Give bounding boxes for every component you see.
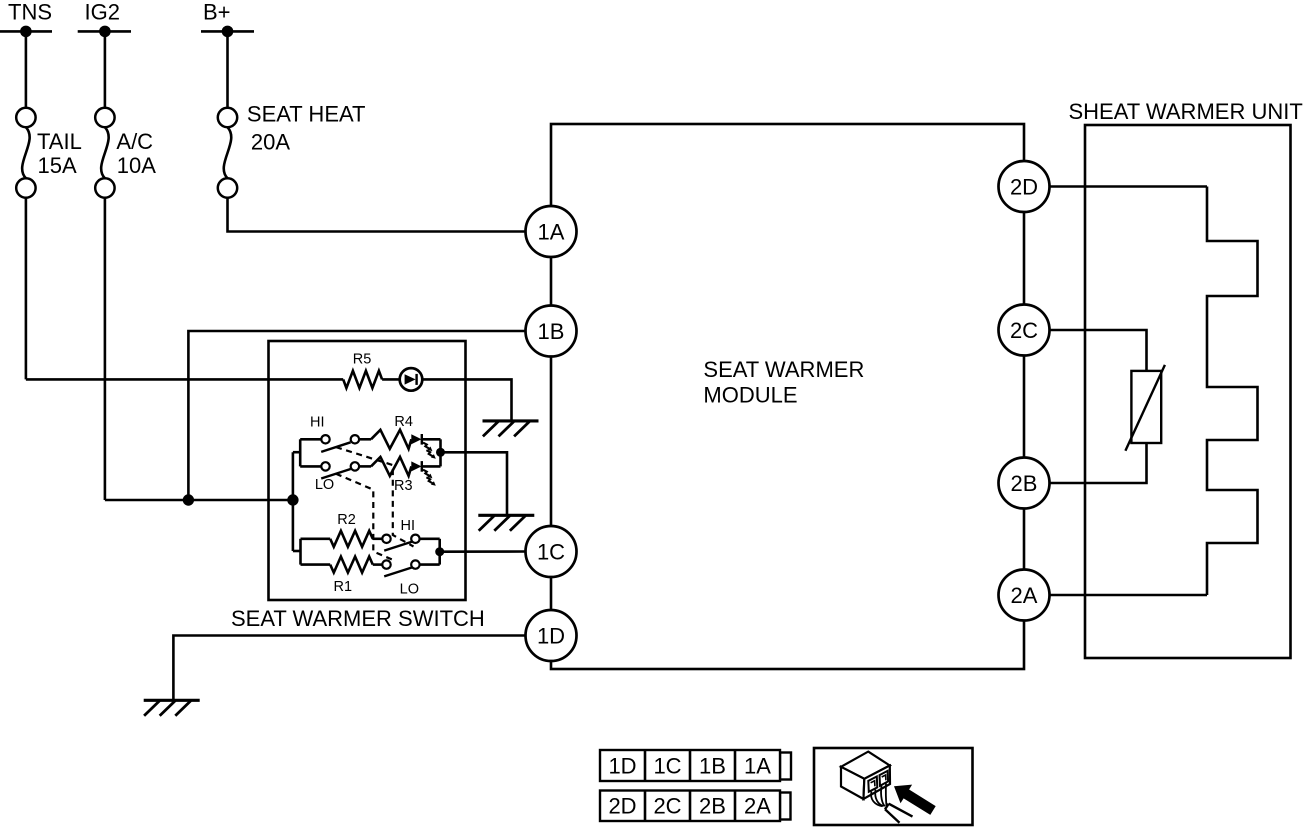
wire R4 to junction (422, 438, 441, 441)
resistor R1 (330, 557, 373, 573)
connector table row 1 tab (780, 753, 791, 780)
resistor R5 (343, 371, 382, 388)
wire HI switch to R4 (359, 438, 371, 441)
resistor R3 (371, 457, 411, 476)
svg-text:2D: 2D (608, 794, 636, 819)
wire HI/LO bracket (299, 439, 302, 466)
switch HI (heater) blade (384, 542, 412, 551)
svg-text:1B: 1B (699, 754, 726, 779)
svg-text:B+: B+ (203, 0, 231, 25)
svg-text:SEAT WARMER: SEAT WARMER (703, 357, 864, 382)
pin 2C (999, 305, 1050, 356)
power rail B+ (201, 30, 254, 33)
junction dot heater switch node (435, 547, 444, 556)
wire TNS to resistor R5 (26, 378, 343, 381)
LED emission arrows R4 (423, 443, 429, 449)
pin 1B (526, 306, 577, 357)
wire R1 to LO switch (373, 563, 383, 566)
wire R2/R1 junction vertical (438, 539, 441, 565)
svg-text:SHEAT WARMER UNIT: SHEAT WARMER UNIT (1069, 99, 1303, 124)
wire B+ rail to fuse SEAT HEAT (226, 31, 229, 108)
svg-text:2C: 2C (653, 794, 681, 819)
pin 2D (999, 161, 1050, 212)
install direction arrow (894, 785, 936, 815)
svg-text:R4: R4 (394, 414, 413, 430)
switch HI (lamp) blade (321, 442, 350, 452)
svg-text:15A: 15A (38, 153, 77, 178)
connector illustration frame (814, 748, 973, 825)
wire LO switch to R3 (359, 465, 371, 468)
wire R3 to junction (422, 465, 441, 468)
svg-text:2A: 2A (1011, 583, 1038, 608)
ground symbol main (144, 699, 200, 702)
pin 1D (526, 610, 577, 661)
svg-text:TNS: TNS (8, 0, 52, 25)
svg-text:2B: 2B (1011, 471, 1038, 496)
ground symbol right of switch (upper) (483, 419, 539, 422)
svg-text:1A: 1A (744, 754, 771, 779)
svg-text:1D: 1D (608, 754, 636, 779)
fuse TAIL 15A (16, 108, 35, 127)
power rail TNS (0, 30, 52, 33)
wire junction to ground (lower) (441, 452, 508, 515)
fuse A/C 10A (95, 108, 114, 127)
heater element (1207, 187, 1258, 596)
connector table row 2 (600, 791, 780, 822)
connector table row2 dividers (644, 791, 647, 822)
switch LO (heater) contact b (411, 560, 419, 568)
svg-text:SEAT HEAT: SEAT HEAT (247, 102, 366, 127)
connector wires (871, 792, 882, 807)
wire LED to ground (422, 379, 512, 421)
wire pin 2C to thermistor (1050, 330, 1147, 371)
wire bracket to HI switch (300, 438, 321, 441)
switch HI (heater) contact b (411, 535, 419, 543)
svg-text:SEAT WARMER SWITCH: SEAT WARMER SWITCH (231, 606, 485, 631)
switch HI (lamp) contact a (321, 435, 329, 443)
svg-text:TAIL: TAIL (37, 129, 82, 154)
wire HI switch to 1C junction (420, 537, 440, 540)
junction dot R4/R3 node (436, 448, 445, 457)
connector wire fork (889, 804, 913, 817)
junction dot IG2/1B node (183, 494, 194, 505)
svg-text:LO: LO (400, 582, 419, 598)
wire R5 to LED (382, 378, 400, 381)
svg-text:1C: 1C (653, 754, 681, 779)
pin 1C (526, 526, 577, 577)
svg-text:1A: 1A (538, 220, 565, 245)
resistor R4 (371, 430, 411, 449)
sheat warmer unit box (1085, 125, 1291, 658)
svg-text:2A: 2A (744, 794, 771, 819)
svg-text:IG2: IG2 (85, 0, 120, 25)
LED diode of R3 (411, 461, 421, 471)
svg-text:1B: 1B (538, 319, 565, 344)
svg-text:2D: 2D (1010, 175, 1038, 200)
svg-text:1C: 1C (537, 540, 565, 565)
LED diode of R4 (411, 434, 421, 444)
thermistor diagonal (1125, 365, 1165, 451)
wire A/C feed horizontal to switch (105, 499, 293, 502)
wire SEAT HEAT fuse to pin 1A (228, 197, 526, 231)
wire R4/R3 junction vertical (439, 439, 442, 466)
seat warmer switch box (269, 341, 466, 600)
switch LO (heater) contact a (382, 560, 390, 568)
seat warmer module box (551, 124, 1024, 669)
wire TAIL fuse down to R5 branch (25, 197, 28, 379)
wire A/C fuse down to switch feed (104, 197, 107, 500)
ground symbol right of switch (lower) (478, 514, 534, 517)
wire pin 2A to heater (1050, 594, 1208, 597)
power rail IG2 (78, 30, 131, 33)
connector pin hole 2 (880, 771, 889, 786)
wire switch feed vertical (292, 452, 295, 551)
svg-text:R1: R1 (334, 579, 353, 595)
LED indicator lamp (400, 368, 423, 391)
connector housing top face (841, 752, 890, 779)
pin 2B (999, 458, 1050, 509)
wire LO switch to 1C junction (420, 563, 440, 566)
wire TNS rail to fuse TAIL (25, 31, 28, 108)
wire stub to R2/R1 bracket (293, 550, 301, 553)
connector housing left face (841, 767, 864, 799)
switch LO (heater) blade (384, 567, 412, 576)
node TNS junction dot (20, 26, 32, 38)
wire bracket to R2 (301, 537, 331, 540)
switch HI (heater) contact a (382, 535, 390, 543)
pin 1A (526, 206, 577, 257)
thermistor body (1131, 371, 1161, 443)
svg-text:R2: R2 (337, 512, 356, 528)
wire R2 to HI switch (373, 537, 383, 540)
svg-text:MODULE: MODULE (703, 383, 797, 408)
svg-text:2C: 2C (1010, 318, 1038, 343)
connector table row 2 tab (780, 793, 791, 820)
svg-text:10A: 10A (117, 153, 156, 178)
fuse SEAT HEAT 20A (218, 108, 237, 127)
LED emission arrows R3 (423, 470, 429, 476)
node IG2 junction dot (99, 26, 111, 38)
svg-text:R3: R3 (394, 478, 413, 494)
connector pin hole 1 (868, 777, 877, 792)
resistor R2 (330, 531, 373, 547)
wire bracket to LO switch (300, 465, 321, 468)
wire bracket to R1 (301, 563, 331, 566)
wire pin 2B to thermistor (1050, 443, 1147, 483)
svg-text:A/C: A/C (116, 129, 153, 154)
switch LO (lamp) contact a (321, 462, 329, 470)
connector table row 1 (600, 750, 780, 781)
svg-text:LO: LO (315, 477, 334, 493)
wire stub to HI/LO bracket (293, 451, 300, 454)
wire junction to pin 1C (440, 550, 526, 553)
svg-text:HI: HI (401, 518, 416, 534)
svg-text:20A: 20A (251, 129, 290, 154)
svg-text:2B: 2B (699, 794, 726, 819)
switch LO (lamp) blade (321, 469, 350, 479)
mechanical linkage HI (dashed) (336, 447, 414, 546)
pin 2A (999, 570, 1050, 621)
node B+ junction dot (222, 26, 234, 38)
wire pin 2D to heater (1050, 185, 1208, 188)
wire R2/R1 bracket (299, 539, 302, 565)
wire pin 1D to ground (173, 636, 525, 701)
svg-text:HI: HI (310, 415, 325, 431)
connector table row1 dividers (644, 750, 647, 781)
switch HI (lamp) contact b (351, 435, 359, 443)
wire IG2 rail to fuse A/C (104, 31, 107, 108)
connector housing front face (864, 766, 891, 800)
junction dot switch feed node (287, 494, 298, 505)
switch LO (lamp) contact b (351, 462, 359, 470)
svg-text:1D: 1D (537, 624, 565, 649)
svg-text:R5: R5 (353, 352, 372, 368)
mechanical linkage LO (dashed) (336, 474, 392, 560)
wire pin 1B to feed node (188, 331, 525, 500)
